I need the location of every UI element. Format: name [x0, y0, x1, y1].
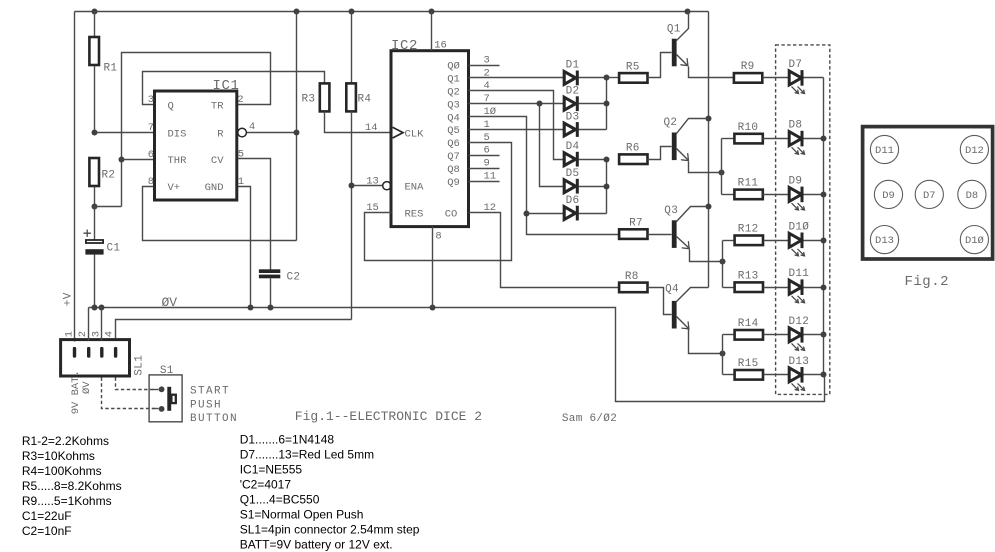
value list right — [240, 433, 420, 552]
node 0V junction dots — [92, 305, 436, 311]
svg-text:R9: R9 — [741, 61, 755, 73]
svg-text:START: START — [190, 386, 230, 398]
svg-text:D3: D3 — [566, 111, 580, 123]
svg-text:R15: R15 — [738, 358, 759, 370]
svg-text:R13: R13 — [738, 271, 759, 283]
LED circle D8 in Fig.2 — [958, 180, 986, 208]
svg-text:THR: THR — [168, 155, 188, 167]
resistor R11 — [734, 178, 788, 200]
svg-text:ØV: ØV — [162, 295, 178, 310]
svg-text:13: 13 — [366, 175, 379, 187]
svg-text:D7.......13=Red Led 5mm: D7.......13=Red Led 5mm — [240, 448, 374, 462]
wire SL1 pin3 to 0V — [101, 308, 103, 341]
svg-text:TR: TR — [211, 100, 224, 112]
LED circle D13 in Fig.2 — [870, 226, 898, 254]
resistor R9 — [734, 61, 789, 83]
svg-text:CLK: CLK — [405, 128, 425, 140]
svg-text:3: 3 — [90, 331, 102, 337]
resistor R3 — [302, 83, 330, 111]
svg-text:SL1=4pin connector 2.54mm step: SL1=4pin connector 2.54mm step — [240, 522, 420, 536]
resistor R4 — [346, 12, 371, 112]
svg-text:D5: D5 — [566, 168, 580, 180]
capacitor C2 — [259, 269, 300, 307]
wire Q2 to D4 — [469, 91, 564, 160]
svg-text:Fig.2: Fig.2 — [905, 274, 950, 290]
svg-text:RES: RES — [405, 208, 424, 220]
IC2 pin8 wire — [433, 227, 442, 308]
svg-text:11: 11 — [484, 171, 497, 183]
svg-text:8: 8 — [435, 230, 441, 242]
svg-text:R9.....5=1Kohms: R9.....5=1Kohms — [22, 494, 112, 508]
wire Q4 to D6 and R8 feed — [469, 117, 620, 235]
wire Q9 stub pin11 — [469, 181, 500, 183]
svg-text:R12: R12 — [738, 224, 759, 236]
svg-text:R1-2=2.2Kohms: R1-2=2.2Kohms — [22, 434, 109, 448]
LED circle D9 in Fig.2 — [874, 180, 902, 208]
svg-text:Q8: Q8 — [447, 164, 460, 176]
svg-text:S1: S1 — [160, 365, 174, 377]
wire D1-D3 cathode bus — [604, 75, 610, 130]
svg-text:S1=Normal Open Push: S1=Normal Open Push — [240, 507, 364, 521]
svg-text:Q1: Q1 — [447, 74, 460, 86]
svg-text:ØV: ØV — [81, 381, 93, 394]
svg-text:C2: C2 — [287, 272, 301, 284]
svg-text:D7: D7 — [789, 59, 803, 71]
svg-text:IC1: IC1 — [213, 78, 240, 94]
svg-text:D12: D12 — [789, 316, 810, 328]
IC2 right pin numbers — [484, 54, 497, 214]
svg-text:D2: D2 — [566, 86, 580, 98]
wire D4-D6 cathode bus — [604, 157, 610, 214]
IC2 pin16 wire — [432, 12, 447, 52]
svg-text:ENA: ENA — [405, 181, 425, 193]
svg-text:Q7: Q7 — [447, 151, 460, 163]
wire LED cathode bus — [821, 78, 827, 378]
resistor R15 — [735, 358, 789, 380]
svg-text:Q3: Q3 — [447, 99, 460, 111]
svg-text:D11: D11 — [875, 145, 894, 157]
transistor Q2 — [648, 117, 722, 173]
connector SL1 box — [61, 340, 130, 376]
svg-text:16: 16 — [434, 40, 447, 52]
svg-text:BUTTON: BUTTON — [190, 413, 238, 425]
svg-text:CO: CO — [445, 208, 458, 220]
svg-text:3: 3 — [484, 54, 490, 66]
resistor R1 — [89, 12, 117, 133]
svg-text:C1: C1 — [107, 243, 121, 255]
IC2 left pin numbers — [365, 122, 379, 214]
node 0V label — [162, 295, 178, 310]
resistor R6 — [619, 143, 647, 164]
svg-text:R2: R2 — [102, 170, 116, 182]
wire Q5 to D3 — [469, 129, 564, 131]
svg-text:8: 8 — [148, 176, 154, 188]
LED D11 — [789, 268, 824, 303]
wire DIS node — [92, 130, 155, 136]
op-amp U IC1 555 box — [155, 78, 240, 200]
wire Q3 to D2 and D5 — [469, 101, 564, 187]
svg-text:3: 3 — [148, 94, 154, 106]
svg-text:R4=100Kohms: R4=100Kohms — [22, 464, 102, 478]
svg-text:D4: D4 — [566, 141, 580, 153]
wire +V top rail — [75, 12, 709, 342]
node 555 R pin bubble — [238, 128, 247, 137]
svg-text:9V BAT.: 9V BAT. — [70, 370, 82, 414]
wire Q2 emitter splitter — [719, 139, 735, 195]
diode D2 — [564, 86, 606, 112]
resistor R2 — [89, 158, 115, 207]
resistor R5 — [607, 61, 648, 82]
svg-text:C1=22uF: C1=22uF — [22, 509, 72, 523]
svg-text:D9: D9 — [789, 175, 803, 187]
LED circle D7 in Fig.2 — [915, 180, 943, 208]
LED D10 — [789, 221, 824, 256]
wire Q6 to RES — [365, 143, 512, 261]
svg-text:+V: +V — [63, 292, 75, 306]
wire +V to Q4 collector — [677, 288, 709, 302]
diode D1 — [564, 60, 606, 86]
wire Q3 emitter splitter — [720, 241, 735, 288]
wire Q0 stub pin3 — [469, 65, 500, 67]
wire dashed SL1 pin3 to S1 — [102, 378, 159, 409]
wire R4 to ENA and SL1 pin 4 — [116, 112, 383, 341]
wire Q1 to D1 — [469, 77, 564, 79]
node battery labels — [63, 292, 94, 414]
svg-text:D8: D8 — [789, 120, 803, 132]
wire Q7 stub pin6 — [469, 155, 500, 157]
node +V rail junction dots — [92, 9, 691, 15]
transistor Q4 — [648, 284, 723, 354]
wire 555 output to R3 — [143, 72, 325, 105]
svg-text:R1: R1 — [104, 63, 118, 75]
LED D7 — [789, 59, 824, 94]
svg-text:R11: R11 — [738, 178, 759, 190]
svg-text:Q2: Q2 — [447, 87, 460, 99]
S1 caption — [190, 386, 238, 425]
svg-text:5: 5 — [238, 149, 244, 161]
LED circle D12 in Fig.2 — [960, 135, 988, 163]
wire 555 GND — [237, 187, 251, 308]
svg-text:QØ: QØ — [447, 61, 460, 73]
svg-text:Q4: Q4 — [447, 112, 460, 124]
resistor R12 — [735, 224, 789, 246]
svg-text:Q2: Q2 — [664, 117, 678, 129]
svg-text:Q1....4=BC550: Q1....4=BC550 — [240, 492, 320, 506]
svg-text:2: 2 — [237, 94, 243, 106]
svg-text:Q4: Q4 — [665, 284, 679, 296]
connector SL1 pins — [73, 347, 118, 358]
svg-text:Q: Q — [168, 100, 174, 112]
IC1 labels — [168, 100, 225, 194]
wire CV to C2 — [237, 159, 271, 270]
svg-text:SL1: SL1 — [134, 355, 146, 376]
svg-text:Q6: Q6 — [447, 138, 460, 150]
SL1 pin number labels — [63, 331, 115, 337]
signature — [562, 413, 617, 425]
svg-text:'C2=4017: 'C2=4017 — [240, 477, 292, 491]
svg-text:D7: D7 — [923, 190, 936, 202]
diode D5 — [564, 168, 606, 194]
svg-text:4: 4 — [249, 121, 255, 133]
svg-text:14: 14 — [365, 122, 378, 134]
svg-text:Fig.1--ELECTRONIC DICE 2: Fig.1--ELECTRONIC DICE 2 — [295, 409, 482, 424]
wire 555 R pin to +V and V+ pin — [143, 12, 300, 241]
svg-text:R: R — [217, 128, 224, 140]
wire Q4 emitter splitter — [720, 335, 735, 375]
diagram Fig.2 dice box — [863, 127, 993, 259]
svg-text:R14: R14 — [738, 318, 759, 330]
svg-text:7: 7 — [148, 122, 154, 134]
svg-text:IC2: IC2 — [391, 38, 418, 54]
svg-text:1: 1 — [238, 176, 244, 188]
svg-text:R6: R6 — [626, 143, 640, 155]
transistor Q1 — [648, 12, 734, 78]
wire Q8 stub pin9 — [469, 168, 500, 170]
svg-text:2: 2 — [77, 331, 89, 337]
diode D6 — [564, 195, 606, 221]
svg-text:D8: D8 — [966, 190, 979, 202]
svg-text:D11: D11 — [789, 268, 810, 280]
svg-text:6: 6 — [148, 149, 154, 161]
wire R3 to CLK — [325, 112, 392, 133]
diode D3 — [564, 111, 606, 137]
svg-text:D1Ø: D1Ø — [789, 221, 810, 233]
svg-text:Q9: Q9 — [447, 177, 460, 189]
svg-text:Sam 6/Ø2: Sam 6/Ø2 — [562, 413, 617, 425]
SL1 label — [134, 355, 146, 376]
node THR junction — [119, 157, 155, 163]
svg-text:D13: D13 — [789, 356, 810, 368]
svg-text:R4: R4 — [358, 94, 372, 106]
LED circle D10 in Fig.2 — [960, 226, 988, 254]
svg-text:D1.......6=1N4148: D1.......6=1N4148 — [240, 433, 335, 447]
svg-text:R8: R8 — [625, 271, 639, 283]
wire TR loop — [122, 53, 271, 207]
resistor R14 — [735, 318, 789, 340]
LED D13 — [789, 356, 824, 391]
node R2-C1 junction — [92, 204, 122, 210]
capacitor C1 — [84, 207, 120, 308]
svg-text:CV: CV — [211, 155, 224, 167]
svg-text:R10: R10 — [738, 122, 759, 134]
LED D9 — [789, 175, 824, 210]
svg-text:PUSH: PUSH — [190, 399, 222, 411]
value list left — [22, 434, 122, 538]
svg-text:C2=10nF: C2=10nF — [22, 524, 72, 538]
wire dashed SL1 pin4 to S1 — [116, 378, 159, 390]
svg-text:GND: GND — [205, 182, 224, 194]
wire dashed LED box — [776, 45, 830, 395]
wire 0V line — [89, 308, 825, 402]
svg-text:BATT=9V battery or 12V ext.: BATT=9V battery or 12V ext. — [240, 537, 393, 551]
svg-text:V+: V+ — [168, 182, 181, 194]
resistor R13 — [735, 271, 789, 293]
wire +V to Q3 collector — [677, 204, 712, 222]
LED circle D11 in Fig.2 — [870, 135, 898, 163]
svg-text:4: 4 — [103, 331, 115, 337]
svg-text:Q3: Q3 — [664, 205, 678, 217]
svg-text:D13: D13 — [875, 235, 894, 247]
svg-text:R7: R7 — [629, 218, 643, 230]
svg-text:D6: D6 — [566, 195, 580, 207]
LED D8 — [789, 120, 824, 155]
svg-text:R3=10Kohms: R3=10Kohms — [22, 449, 95, 463]
transistor Q3 — [648, 205, 723, 262]
wire CO to R8 — [469, 213, 620, 288]
resistor R8 — [619, 271, 647, 292]
svg-text:Q1: Q1 — [667, 23, 681, 35]
IC2 labels — [405, 61, 460, 221]
svg-text:D12: D12 — [965, 145, 984, 157]
wire SL1 pin2 to 0V — [88, 308, 90, 341]
svg-text:R3: R3 — [302, 94, 316, 106]
resistor R7 — [619, 218, 647, 239]
svg-text:1: 1 — [63, 331, 75, 337]
LED D12 — [789, 316, 824, 351]
title Fig.1 — [295, 409, 482, 424]
diode D4 — [564, 141, 606, 167]
svg-text:R5: R5 — [626, 61, 640, 73]
svg-text:DIS: DIS — [168, 128, 187, 140]
svg-text:D1: D1 — [566, 60, 580, 72]
switch S1 — [149, 365, 182, 422]
IC2 clock triangle — [393, 127, 403, 138]
op-amp U IC2 4017 box — [391, 38, 469, 227]
svg-text:D1Ø: D1Ø — [965, 235, 984, 247]
svg-text:IC1=NE555: IC1=NE555 — [240, 463, 303, 477]
IC1 pin numbers — [148, 94, 256, 188]
resistor R10 — [734, 122, 788, 144]
svg-text:Q5: Q5 — [447, 125, 460, 137]
wire +V to Q2 collector — [677, 116, 712, 134]
Fig.2 caption — [905, 274, 950, 290]
node ENA bubble — [383, 182, 391, 190]
svg-text:R5.....8=8.2Kohms: R5.....8=8.2Kohms — [22, 479, 122, 493]
svg-text:D9: D9 — [882, 190, 895, 202]
